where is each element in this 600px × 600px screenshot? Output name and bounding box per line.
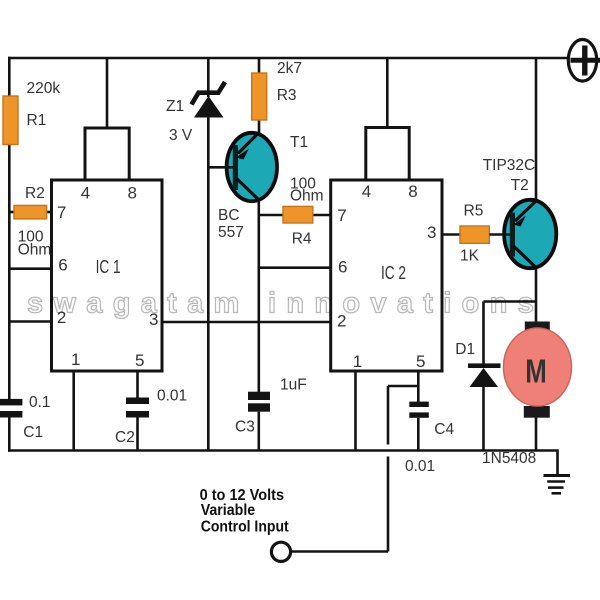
- svg-text:7: 7: [337, 206, 346, 225]
- capacitor C4 0.01: [409, 402, 429, 418]
- wire: IC2 pin6 to T1 node: [259, 266, 331, 269]
- svg-text:6: 6: [58, 256, 67, 275]
- svg-text:Ohm: Ohm: [18, 241, 52, 258]
- svg-text:220k: 220k: [27, 80, 61, 97]
- resistor R2 100 Ohm: [14, 205, 47, 219]
- svg-text:C3: C3: [235, 419, 255, 436]
- svg-text:BC: BC: [218, 207, 240, 224]
- wire: C2 to bottom rail: [136, 417, 139, 451]
- svg-text:8: 8: [408, 182, 417, 201]
- wire: IC1 supply drop: [106, 58, 109, 128]
- wire: D1 anode down: [482, 387, 485, 451]
- wire: motor bottom to rail: [535, 416, 538, 451]
- svg-text:TIP32C: TIP32C: [483, 157, 536, 174]
- svg-text:3: 3: [149, 310, 158, 329]
- svg-text:5: 5: [416, 352, 425, 371]
- wire: Z1 to bottom rail (through T1 base node): [207, 117, 210, 451]
- wire: control branch down (below rail): [387, 457, 390, 552]
- wire: top +12V rail: [8, 57, 568, 60]
- svg-text:Ohm: Ohm: [290, 188, 324, 205]
- resistor R5 1K: [460, 226, 489, 243]
- wire: IC1 pin3 to IC2 pin2: [162, 321, 331, 324]
- resistor R1 220k: [3, 96, 18, 145]
- wire: control branch down (above rail): [387, 386, 390, 445]
- capacitor C3 1uF: [248, 392, 270, 412]
- svg-text:C1: C1: [23, 424, 43, 441]
- wire: D1 cathode up: [482, 302, 485, 365]
- wire: R4 to IC2 pin7: [313, 214, 331, 217]
- transistor T1 BC557: [208, 133, 277, 202]
- wire: T2 emitter from top rail: [535, 58, 538, 200]
- svg-text:C2: C2: [115, 429, 135, 446]
- wire: IC2 pin3 to R5: [442, 233, 460, 236]
- svg-text:0.01: 0.01: [157, 388, 187, 405]
- svg-text:T1: T1: [290, 134, 308, 151]
- svg-text:2k7: 2k7: [277, 60, 302, 77]
- wire: motor top connection: [535, 302, 538, 324]
- svg-text:R5: R5: [464, 202, 484, 219]
- wire: T1 node to R4: [259, 214, 283, 217]
- svg-text:4: 4: [362, 182, 371, 201]
- svg-text:D1: D1: [455, 341, 475, 358]
- motor M: [504, 322, 572, 418]
- wire: jog to D1: [484, 300, 537, 303]
- op-amp/timer IC1 body: [52, 180, 163, 371]
- wire: T1 emitter down to C3: [257, 200, 260, 392]
- zener Z1: [192, 82, 226, 118]
- wire: IC1 pin1 drop: [72, 371, 75, 451]
- wire: left rail C1 to bottom: [8, 417, 11, 452]
- svg-text:Z1: Z1: [166, 98, 184, 115]
- node: +12V battery terminal: [568, 40, 600, 82]
- svg-text:1N5408: 1N5408: [482, 450, 536, 467]
- wire: R3 branch from top rail: [258, 58, 261, 73]
- svg-text:0.01: 0.01: [405, 458, 435, 475]
- svg-text:1uF: 1uF: [280, 376, 307, 393]
- svg-text:R2: R2: [25, 185, 45, 202]
- wire: control branch horizontal: [388, 385, 418, 388]
- wire: C3 to bottom rail: [257, 412, 260, 451]
- wire: IC2 pin5 to C4: [417, 371, 420, 402]
- svg-text:1: 1: [353, 352, 362, 371]
- wire: IC2 pin1 drop: [354, 371, 357, 451]
- svg-text:R4: R4: [292, 230, 312, 247]
- svg-text:3 V: 3 V: [169, 127, 193, 144]
- wire: Z1 branch from top rail: [207, 58, 210, 97]
- wire: left rail above R1: [8, 57, 11, 97]
- wire: C4 to bottom rail: [417, 418, 420, 451]
- svg-text:IC 2: IC 2: [381, 263, 406, 283]
- wire: IC2 supply drop: [386, 58, 389, 128]
- wire: left rail R1 to C1: [8, 144, 11, 400]
- svg-text:Control Input: Control Input: [201, 518, 289, 535]
- svg-text:Variable: Variable: [201, 502, 256, 519]
- wire: R2 to IC1 pin7: [47, 211, 52, 214]
- wire: T2 collector down: [535, 269, 538, 302]
- svg-text:3: 3: [427, 223, 436, 242]
- svg-text:R1: R1: [27, 112, 47, 129]
- svg-text:swagatam innovations: swagatam innovations: [27, 288, 544, 320]
- svg-text:2: 2: [337, 312, 346, 331]
- svg-text:5: 5: [135, 351, 144, 370]
- transistor T2 TIP32C: [489, 200, 556, 269]
- resistor R4 100 Ohm: [283, 206, 313, 223]
- capacitor C2 0.01: [126, 398, 149, 418]
- wire: R2 to left rail: [9, 211, 14, 214]
- svg-text:R3: R3: [277, 87, 297, 104]
- svg-text:M: M: [525, 353, 547, 390]
- svg-text:1: 1: [71, 350, 80, 369]
- resistor R3 2k7: [252, 73, 267, 120]
- IC1 notch: [85, 128, 129, 180]
- op-amp/timer IC2 body: [331, 180, 442, 371]
- svg-text:2: 2: [57, 308, 66, 327]
- svg-text:C4: C4: [434, 421, 454, 438]
- svg-text:7: 7: [57, 203, 66, 222]
- IC2 notch: [366, 128, 409, 181]
- svg-text:1K: 1K: [460, 248, 480, 265]
- diode D1 1N5408: [468, 363, 501, 387]
- wire: IC1 pin5 to C2: [136, 371, 139, 398]
- svg-text:T2: T2: [511, 177, 529, 194]
- svg-text:8: 8: [128, 183, 137, 202]
- wire: control input horizontal: [291, 550, 389, 553]
- wire: bottom ground rail: [8, 451, 558, 476]
- wire: IC1 pin2 to left rail: [9, 320, 51, 323]
- wire: IC1 pin6 to left rail: [9, 267, 51, 270]
- svg-text:6: 6: [338, 258, 347, 277]
- svg-text:0.1: 0.1: [29, 394, 51, 411]
- capacitor C1 0.1: [0, 399, 22, 418]
- svg-text:IC 1: IC 1: [96, 257, 121, 277]
- ground: [544, 476, 571, 494]
- svg-text:4: 4: [81, 183, 90, 202]
- wire: R3 to T1: [258, 120, 261, 133]
- node: control input terminal: [271, 542, 290, 561]
- svg-text:557: 557: [218, 224, 244, 241]
